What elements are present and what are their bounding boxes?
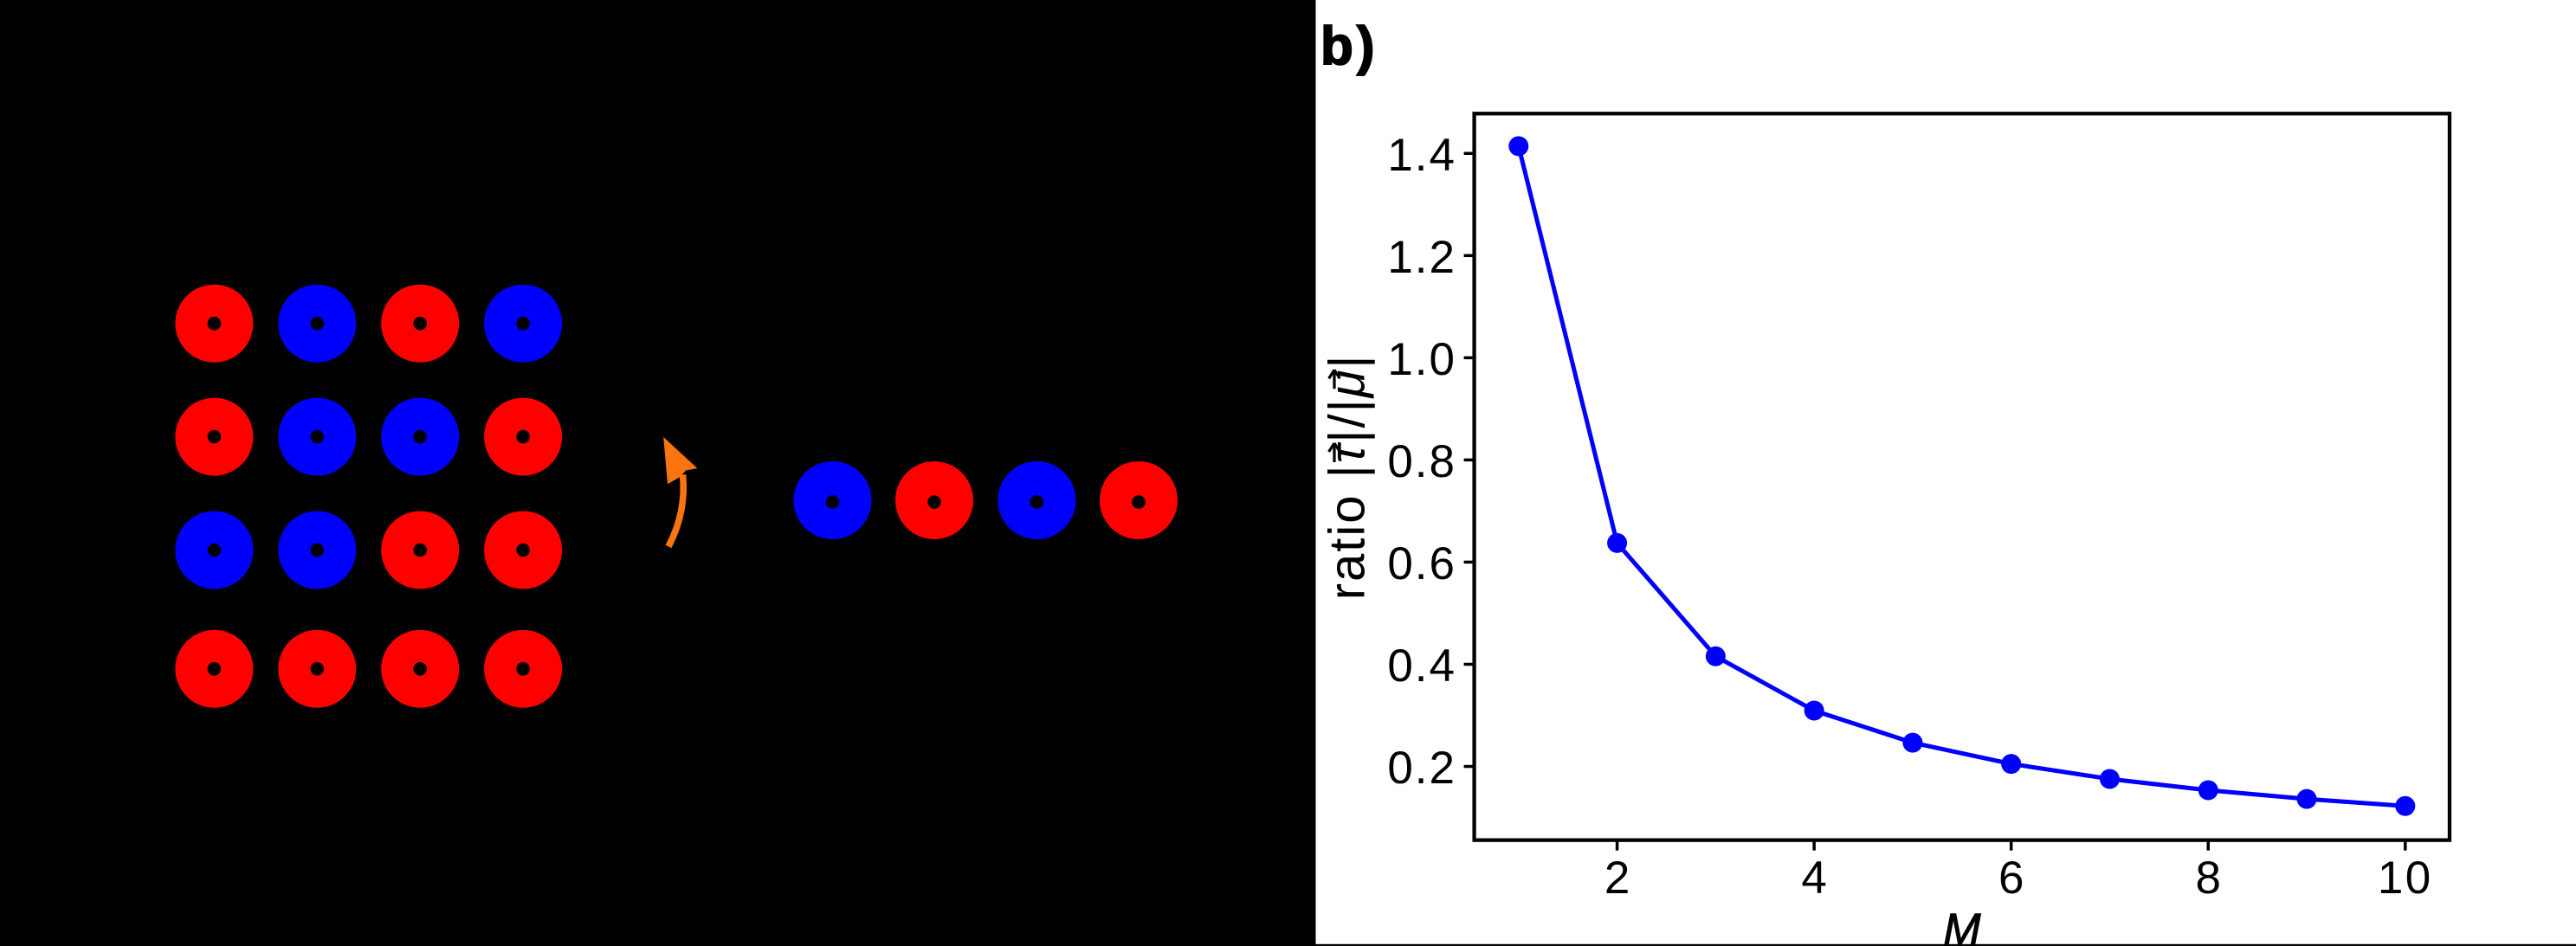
y tick 1.0 (1464, 357, 1475, 360)
x tick M=2 (1616, 840, 1619, 851)
grid spin r1c4 blue (484, 285, 562, 363)
data curve (1519, 146, 2405, 806)
orange arrow head (663, 437, 697, 484)
svg-text:1.2: 1.2 (1387, 232, 1456, 283)
row spin 3 blue (997, 461, 1075, 539)
svg-text:0.6: 0.6 (1387, 538, 1456, 589)
svg-text:M: M (1943, 905, 1981, 946)
svg-text:6: 6 (1998, 853, 2024, 904)
grid spin r1c3 red (381, 285, 459, 363)
row spin 2 red (895, 461, 973, 539)
y tick 1.4 (1464, 152, 1475, 156)
grid spin r4c4 red (484, 630, 562, 708)
y axis label: ratio |tau|/|mu| (1320, 353, 1376, 600)
axes box (spines) (1475, 113, 2450, 840)
left panel black background (0, 0, 1316, 946)
grid spin r3c2 blue (278, 512, 356, 589)
svg-text:8: 8 (2195, 853, 2220, 904)
grid spin r1c1 red (175, 285, 253, 363)
svg-text:1.4: 1.4 (1387, 130, 1456, 181)
x tick M=4 (1812, 840, 1816, 851)
bottom black strip (0, 944, 2576, 946)
row spin 4 red (1100, 461, 1178, 539)
x tick M=10 (2404, 840, 2407, 851)
y tick 0.6 (1464, 561, 1475, 564)
svg-text:10: 10 (2378, 853, 2433, 904)
svg-text:b): b) (1320, 16, 1378, 76)
grid spin r2c3 blue (381, 398, 459, 476)
svg-text:0.2: 0.2 (1387, 743, 1456, 794)
x tick M=8 (2206, 840, 2210, 851)
grid spin r1c2 blue (278, 285, 356, 363)
svg-text:0.4: 0.4 (1387, 640, 1456, 692)
row spin 1 blue (794, 461, 872, 539)
grid spin r2c1 red (175, 398, 253, 476)
vector arrow over tau (1329, 443, 1340, 462)
svg-text:ratio |τ|/|μ|: ratio |τ|/|μ| (1320, 353, 1376, 600)
grid spin r4c1 red (175, 630, 253, 708)
y tick 0.2 (1464, 765, 1475, 769)
grid spin r3c4 red (484, 512, 562, 589)
svg-text:1.0: 1.0 (1387, 334, 1456, 385)
grid spin r2c4 red (484, 398, 562, 476)
grid spin r2c2 blue (278, 398, 356, 476)
vector arrow over mu (1329, 370, 1340, 389)
data markers (1508, 136, 2415, 815)
svg-text:0.8: 0.8 (1387, 436, 1456, 487)
grid spin r4c2 red (278, 630, 356, 708)
svg-text:4: 4 (1801, 853, 1826, 904)
svg-text:2: 2 (1604, 853, 1630, 904)
grid spin r3c3 red (381, 512, 459, 589)
y tick 0.8 (1464, 459, 1475, 462)
grid spin r3c1 blue (175, 512, 253, 589)
orange curved arrow tail (668, 475, 683, 547)
y tick 1.2 (1464, 254, 1475, 258)
grid spin r4c3 red (381, 630, 459, 708)
y tick 0.4 (1464, 663, 1475, 666)
x tick M=6 (2010, 840, 2013, 851)
